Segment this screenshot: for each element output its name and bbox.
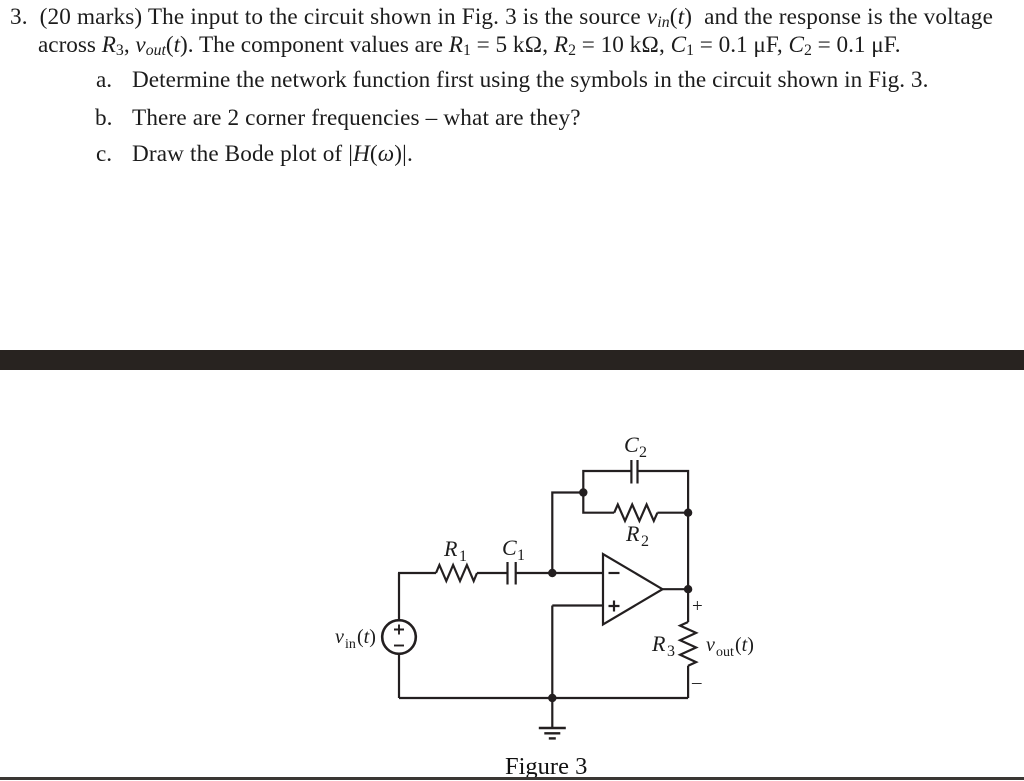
- label C1: [502, 535, 525, 564]
- label vout(t): [706, 634, 754, 660]
- source plus sign: [394, 625, 404, 635]
- svg-text:2: 2: [639, 444, 647, 461]
- node: C1 output junction: [548, 569, 556, 577]
- capacitor C2: [631, 460, 637, 484]
- svg-text:+: +: [692, 596, 703, 617]
- label output plus: [692, 596, 703, 617]
- wire: plus input line: [552, 604, 603, 606]
- ground: [539, 698, 566, 738]
- figure caption: [505, 753, 587, 781]
- wire: R1 to C1: [477, 572, 507, 574]
- svg-text:–: –: [691, 672, 702, 693]
- wire: left vertical from source bottom to bottom rail: [398, 654, 400, 699]
- wire: bottom rail: [399, 697, 688, 699]
- svg-text:1: 1: [517, 547, 525, 564]
- divider bar: [0, 350, 1024, 370]
- label R1: [443, 536, 467, 565]
- node: output junction: [684, 585, 692, 593]
- resistor R2: [614, 505, 657, 521]
- svg-text:v: v: [335, 626, 344, 648]
- wire: C2 branch left side: [583, 471, 631, 493]
- svg-text:2: 2: [641, 533, 649, 550]
- bottom bar: [0, 777, 1024, 780]
- wire: R2 to right vertical: [657, 512, 688, 514]
- wire: plus input vertical to bottom rail: [551, 606, 553, 699]
- node: ground junction: [548, 694, 556, 702]
- svg-text:(t): (t): [357, 626, 376, 648]
- wire: R3 to bottom rail: [687, 666, 689, 698]
- label output minus: [691, 672, 702, 693]
- op-amp minus sign: [609, 572, 620, 574]
- wire: op-amp output to node: [663, 588, 689, 590]
- source minus sign: [394, 645, 404, 647]
- svg-text:R: R: [443, 536, 458, 561]
- source vin circle: [382, 620, 416, 654]
- svg-text:R: R: [651, 631, 666, 656]
- label R2: [625, 521, 649, 550]
- svg-text:C: C: [502, 535, 517, 560]
- problem statement line 2: [38, 34, 901, 57]
- wire: input line source to R1: [398, 572, 436, 574]
- resistor R1: [436, 565, 477, 581]
- wire: left vertical from source top to input line: [398, 573, 400, 621]
- wire: C2 branch right side: [638, 471, 689, 513]
- item c: [96, 143, 112, 166]
- label vin(t): [335, 626, 376, 652]
- item b: [95, 107, 112, 130]
- svg-text:v: v: [706, 634, 715, 656]
- svg-text:in: in: [345, 637, 356, 652]
- op-amp plus sign: [609, 601, 620, 612]
- wire: right vertical feedback to output: [687, 513, 689, 590]
- node: feedback right junction: [684, 509, 692, 517]
- wire: feedback tap vertical up: [552, 493, 583, 574]
- capacitor C1: [508, 562, 516, 585]
- svg-text:out: out: [716, 645, 734, 660]
- wire: output node down to R3: [687, 589, 689, 622]
- node: feedback split junction: [579, 488, 587, 496]
- op-amp U1: [603, 554, 663, 625]
- resistor R3: [680, 622, 696, 666]
- svg-text:1: 1: [459, 548, 467, 565]
- item a: [96, 69, 112, 92]
- svg-text:(t): (t): [735, 634, 754, 656]
- label R3: [651, 631, 675, 660]
- wire: C1 to op-amp minus input: [516, 572, 603, 574]
- label C2: [624, 432, 647, 461]
- svg-text:C: C: [624, 432, 639, 457]
- svg-text:3: 3: [667, 643, 675, 660]
- wire: R2 branch left side: [583, 493, 614, 513]
- problem statement line 1: [10, 6, 993, 29]
- svg-text:R: R: [625, 521, 640, 546]
